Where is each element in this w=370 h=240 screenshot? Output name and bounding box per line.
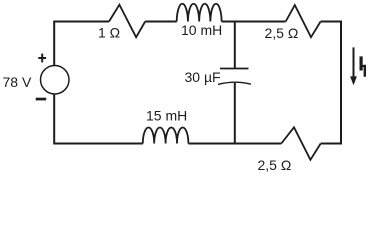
label I1 <box>360 56 367 76</box>
svg-text:30 µF: 30 µF <box>185 69 221 85</box>
wire: L1 past node to R2 <box>222 21 286 23</box>
wire: top node down to capacitor <box>234 22 236 69</box>
resistor R2 2,5 ohm (top) <box>286 5 321 37</box>
wire: R2 to top-right corner, down right side, to bottom-right corner, left to R3 <box>321 22 341 144</box>
wire: R3 past node to L2 <box>188 143 281 145</box>
svg-text:1 Ω: 1 Ω <box>98 25 120 41</box>
resistor R3 2,5 ohm (bottom) <box>281 127 320 160</box>
svg-text:15 mH: 15 mH <box>146 108 187 124</box>
svg-text:2,5 Ω: 2,5 Ω <box>258 157 292 173</box>
capacitor C1 <box>218 69 251 85</box>
svg-text:78 V: 78 V <box>3 74 32 90</box>
minus sign of V1 <box>36 98 47 101</box>
wire: L2 to bottom-left corner and up to voltage source - terminal <box>54 94 143 143</box>
plus sign of V1 <box>38 54 46 63</box>
resistor R1 1 ohm <box>109 5 145 38</box>
svg-text:10 mH: 10 mH <box>181 22 222 38</box>
inductor L2 15 mH <box>143 128 189 144</box>
voltage source V1 <box>41 66 70 95</box>
wire: capacitor down to bottom node <box>234 83 236 144</box>
wire: voltage source + terminal up to top-left corner then right to R1 <box>54 22 109 66</box>
svg-text:2,5 Ω: 2,5 Ω <box>265 25 299 41</box>
current arrow I1 <box>350 47 357 85</box>
inductor L1 10 mH <box>177 4 222 22</box>
wire: R1 to L1 <box>145 21 177 23</box>
